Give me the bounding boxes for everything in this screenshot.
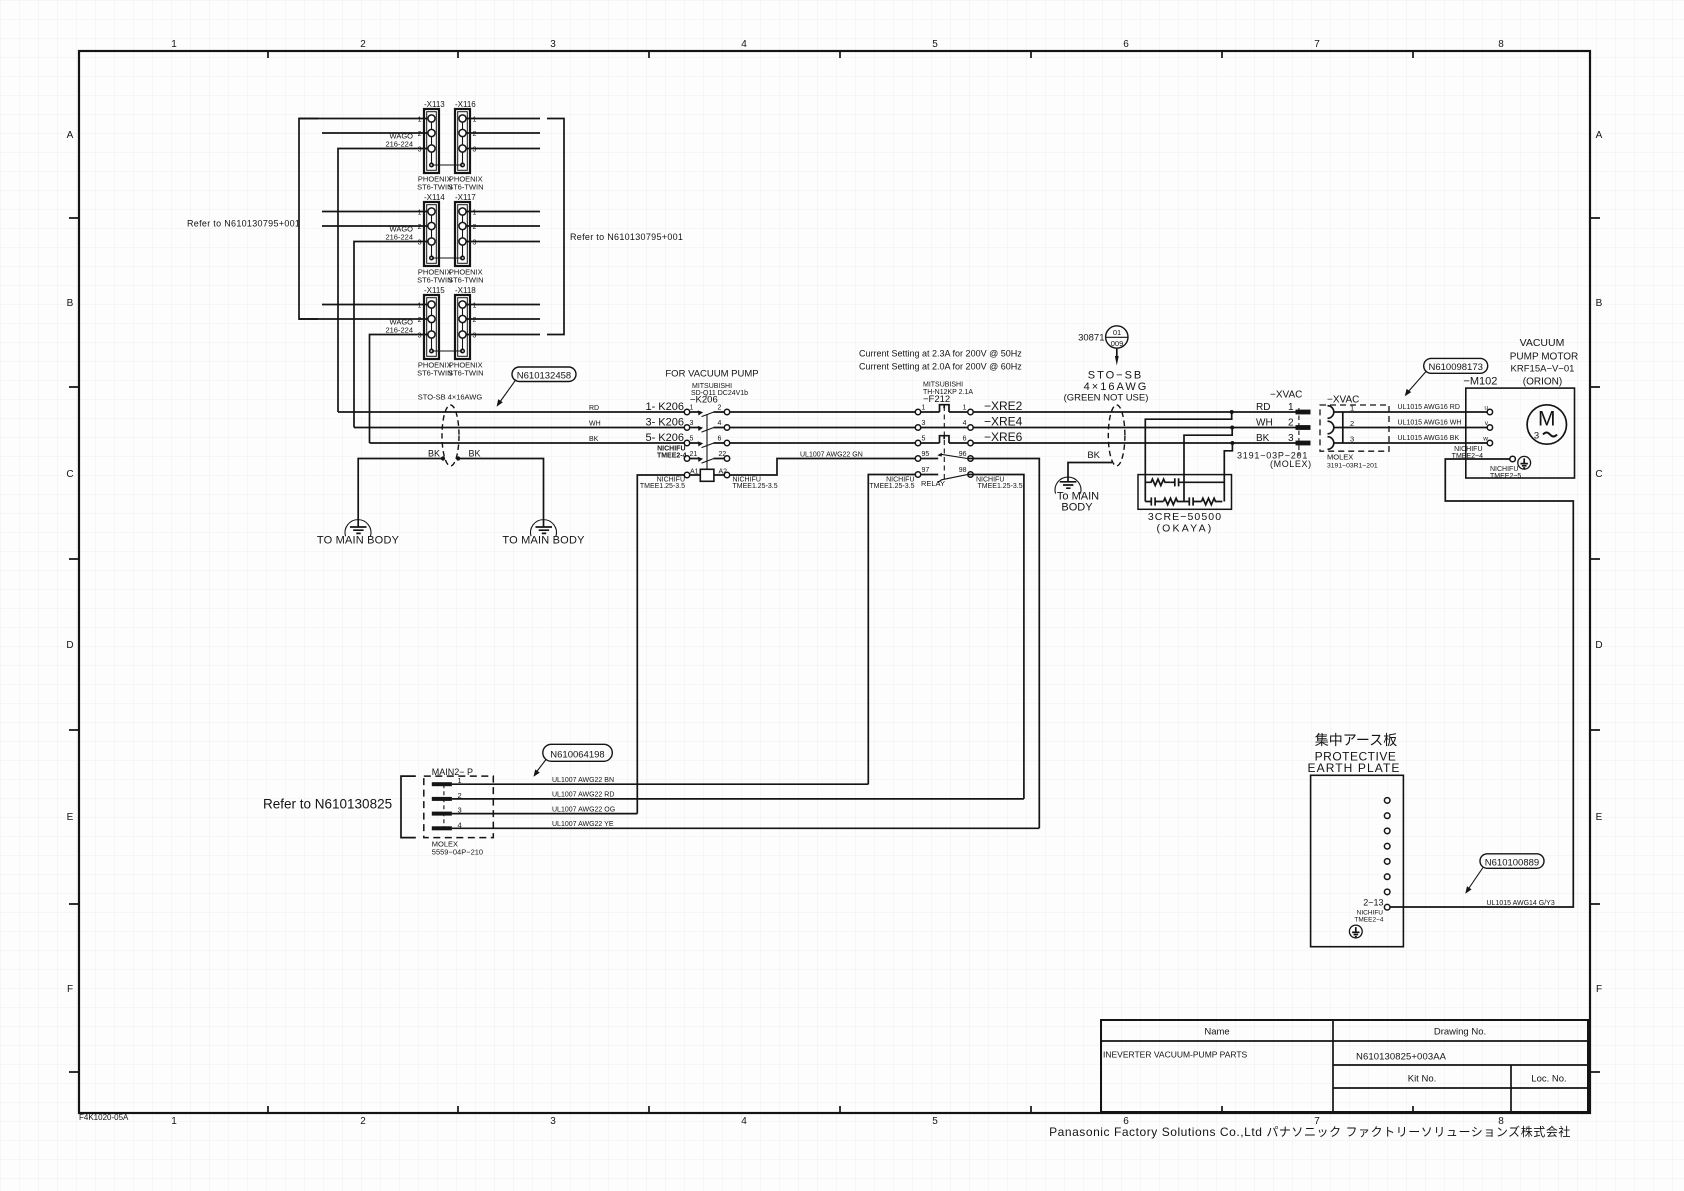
- svg-text:2: 2: [360, 1116, 366, 1127]
- svg-text:TMEE2-4: TMEE2-4: [657, 453, 687, 460]
- svg-text:MITSUBISHI: MITSUBISHI: [923, 382, 963, 389]
- svg-text:(GREEN NOT USE): (GREEN NOT USE): [1064, 393, 1149, 404]
- wire X113.3 to RD: [338, 149, 428, 413]
- svg-text:UL1015 AWG14 G/Y3: UL1015 AWG14 G/Y3: [1487, 900, 1555, 907]
- svg-text:2−13: 2−13: [1363, 898, 1383, 908]
- svg-text:Current Setting at 2.3A for 20: Current Setting at 2.3A for 200V @ 50Hz: [859, 349, 1022, 359]
- cable shield ellipse (right): [1108, 405, 1125, 466]
- connector -X116: [448, 100, 483, 192]
- svg-text:N610130825+003AA: N610130825+003AA: [1356, 1052, 1447, 1063]
- wire WH F212 to XVAC: [973, 427, 1295, 429]
- svg-text:(MOLEX): (MOLEX): [1270, 459, 1312, 469]
- svg-text:5: 5: [932, 39, 938, 50]
- refer note MAIN2-P: [263, 797, 392, 812]
- row ticks left: [69, 218, 79, 1072]
- svg-text:A: A: [67, 130, 74, 141]
- wire UL1015 AWG16 BK to motor: [1389, 435, 1487, 443]
- svg-text:-X115: -X115: [424, 286, 445, 295]
- svg-text:1: 1: [690, 405, 694, 412]
- wire X115-X118 link: [432, 350, 463, 352]
- svg-text:N610098173: N610098173: [1428, 362, 1482, 373]
- svg-text:STO−SB: STO−SB: [1088, 370, 1144, 382]
- svg-text:216-224: 216-224: [385, 140, 413, 149]
- wire X118.2: [466, 318, 540, 320]
- svg-text:WH: WH: [589, 421, 601, 428]
- wire 97 to MAIN2-P.1 (BN): [868, 475, 915, 785]
- svg-text:TMEE2−4: TMEE2−4: [1354, 917, 1383, 924]
- svg-text:ST6-TWIN: ST6-TWIN: [448, 183, 483, 192]
- revision mark 30871 01/009: [1078, 326, 1128, 366]
- wire BK drain to left ground: [358, 449, 443, 528]
- svg-text:1: 1: [171, 1116, 177, 1127]
- svg-text:3CRE−50500: 3CRE−50500: [1148, 511, 1222, 523]
- node -XRE2: [984, 399, 1023, 413]
- svg-text:1: 1: [473, 303, 477, 310]
- svg-text:集中アース板: 集中アース板: [1315, 732, 1397, 748]
- wire RD F212 to XVAC: [973, 411, 1295, 413]
- svg-text:97: 97: [922, 467, 930, 474]
- svg-text:Refer to N610130825: Refer to N610130825: [263, 797, 392, 812]
- svg-text:95: 95: [922, 451, 930, 458]
- svg-text:2: 2: [473, 131, 477, 138]
- svg-text:UL1007 AWG22 BN: UL1007 AWG22 BN: [552, 777, 614, 784]
- refer note left: [187, 219, 300, 229]
- thermal overload relay -F212: [869, 382, 1022, 491]
- svg-text:01: 01: [1113, 328, 1121, 337]
- svg-text:009: 009: [1111, 339, 1124, 348]
- svg-text:(OKAYA): (OKAYA): [1156, 523, 1213, 535]
- wire X118.1: [466, 304, 540, 306]
- svg-text:WH: WH: [1256, 417, 1273, 428]
- svg-text:B: B: [67, 298, 74, 309]
- svg-text:1: 1: [171, 39, 177, 50]
- svg-text:BK: BK: [589, 436, 599, 443]
- svg-text:−M102: −M102: [1463, 376, 1497, 388]
- column ticks top: [268, 51, 1413, 58]
- svg-text:3: 3: [418, 333, 422, 340]
- node -XRE4: [984, 414, 1023, 428]
- svg-text:7: 7: [1314, 39, 1320, 50]
- wire X113.1: [299, 118, 428, 120]
- svg-text:UL1015 AWG16 WH: UL1015 AWG16 WH: [1398, 420, 1462, 427]
- svg-text:5: 5: [690, 436, 694, 443]
- svg-text:5559−04P−210: 5559−04P−210: [432, 848, 483, 857]
- svg-text:5: 5: [932, 1116, 938, 1127]
- wire 98 to MAIN2-P.2 (RD): [973, 475, 1024, 799]
- wire BK drain to right ground: [458, 449, 543, 528]
- wire UL1015 AWG16 WH to motor: [1389, 420, 1487, 428]
- svg-text:2: 2: [418, 317, 422, 324]
- svg-text:−XRE6: −XRE6: [984, 430, 1023, 444]
- wire BK F212 to XVAC: [973, 442, 1295, 444]
- svg-text:ST6-TWIN: ST6-TWIN: [448, 369, 483, 378]
- protective earth plate: [1307, 732, 1403, 947]
- earth symbol (circled): [1349, 925, 1362, 938]
- svg-text:5- K206: 5- K206: [645, 432, 684, 444]
- right group bracket: [547, 119, 564, 335]
- svg-text:3: 3: [922, 420, 926, 427]
- svg-text:-X118: -X118: [455, 286, 476, 295]
- junction BK drain left: [441, 456, 445, 460]
- capacitor C bottom-right: [1184, 497, 1202, 505]
- svg-text:3: 3: [473, 147, 477, 154]
- svg-text:PUMP MOTOR: PUMP MOTOR: [1510, 352, 1579, 363]
- svg-text:4: 4: [718, 420, 722, 427]
- left group bracket: [299, 119, 318, 320]
- earth symbol (circled): [1518, 456, 1531, 469]
- svg-text:1: 1: [418, 210, 422, 217]
- wire X117.2: [466, 225, 540, 227]
- wire BK K206 to F212: [730, 442, 916, 444]
- svg-text:3: 3: [418, 240, 422, 247]
- contactor -K206: [640, 369, 778, 491]
- svg-text:FOR VACUUM PUMP: FOR VACUUM PUMP: [665, 369, 758, 380]
- svg-text:2: 2: [473, 317, 477, 324]
- svg-text:2: 2: [473, 224, 477, 231]
- svg-text:21: 21: [690, 451, 698, 458]
- wire RD phase row (cable to K206): [338, 405, 684, 412]
- svg-text:1: 1: [473, 117, 477, 124]
- wire X118.3: [466, 334, 540, 336]
- part flag N610132458: [497, 367, 576, 407]
- svg-text:1: 1: [1288, 402, 1294, 413]
- svg-text:EARTH PLATE: EARTH PLATE: [1307, 761, 1400, 775]
- svg-text:98: 98: [959, 467, 967, 474]
- svg-text:BK: BK: [1256, 433, 1270, 444]
- wire BK tap to filter: [1224, 443, 1232, 502]
- svg-text:3: 3: [550, 39, 556, 50]
- svg-text:Current Setting at 2.0A for 20: Current Setting at 2.0A for 200V @ 60Hz: [859, 362, 1022, 372]
- TITLEBLOCK: [1101, 1020, 1588, 1112]
- svg-text:−XVAC: −XVAC: [1270, 390, 1302, 401]
- svg-text:4: 4: [963, 420, 967, 427]
- svg-text:B: B: [1596, 298, 1603, 309]
- svg-text:NICHIFU: NICHIFU: [657, 446, 685, 453]
- resistor R top: [1145, 479, 1170, 485]
- svg-text:3: 3: [550, 1116, 556, 1127]
- wire UL1007 AWG22 YE (pin4): [452, 821, 1039, 828]
- svg-text:−XVAC: −XVAC: [1327, 395, 1359, 406]
- svg-text:UL1007 AWG22 RD: UL1007 AWG22 RD: [552, 792, 614, 799]
- svg-text:TMEE1.25-3.5: TMEE1.25-3.5: [733, 483, 778, 490]
- motor symbol M 3~: [1527, 405, 1566, 444]
- svg-text:TO MAIN BODY: TO MAIN BODY: [317, 535, 400, 547]
- wire A1 to MAIN2-P.3: [637, 475, 684, 814]
- wire X115.3 to BK: [370, 335, 429, 444]
- svg-text:216-224: 216-224: [385, 326, 413, 335]
- svg-text:RD: RD: [589, 405, 599, 412]
- svg-text:MOLEX: MOLEX: [1327, 453, 1353, 462]
- svg-text:BK: BK: [469, 449, 481, 459]
- svg-text:2: 2: [718, 405, 722, 412]
- svg-text:1: 1: [922, 405, 926, 412]
- capacitor C top: [1171, 478, 1225, 486]
- RIGHT: [1055, 326, 1578, 947]
- svg-text:C: C: [1595, 469, 1602, 480]
- svg-text:2: 2: [360, 39, 366, 50]
- wire UL1015 AWG16 RD to motor: [1389, 404, 1487, 412]
- svg-text:−K206: −K206: [690, 395, 718, 406]
- svg-text:4: 4: [741, 1116, 747, 1127]
- svg-text:M: M: [1538, 408, 1556, 431]
- connector -X115: [385, 286, 452, 378]
- svg-text:E: E: [67, 812, 74, 823]
- svg-text:RELAY: RELAY: [921, 479, 945, 488]
- svg-text:-X114: -X114: [424, 193, 445, 202]
- connector -X117: [448, 193, 483, 285]
- MIDDLE: [317, 349, 1296, 829]
- connector -XVAC plug 3191-03P-201: [1237, 390, 1312, 470]
- svg-text:6: 6: [718, 436, 722, 443]
- wire WH K206 to F212: [730, 427, 916, 429]
- junction RD tap: [1230, 410, 1234, 414]
- svg-text:Kit No.: Kit No.: [1408, 1074, 1437, 1085]
- svg-text:Name: Name: [1204, 1027, 1229, 1038]
- wire PE motor to earth plate: [1390, 459, 1573, 907]
- svg-text:Loc. No.: Loc. No.: [1531, 1074, 1566, 1085]
- wire RD K206 to F212: [730, 411, 916, 413]
- connector -X113: [385, 100, 452, 192]
- svg-text:4×16AWG: 4×16AWG: [1084, 381, 1149, 393]
- svg-text:-X113: -X113: [424, 100, 445, 109]
- ground To MAIN BODY (right): [1055, 477, 1099, 513]
- refer note right: [570, 232, 683, 242]
- connector MAIN2-P MOLEX 5559-04P-210: [424, 767, 494, 857]
- wire X116.3: [466, 148, 540, 150]
- row letters right: [1595, 130, 1602, 995]
- part flag N610100889: [1465, 854, 1544, 894]
- svg-text:3191−03R1−201: 3191−03R1−201: [1327, 463, 1378, 470]
- svg-text:2: 2: [418, 224, 422, 231]
- svg-text:MITSUBISHI: MITSUBISHI: [692, 383, 732, 390]
- svg-text:6: 6: [1123, 39, 1129, 50]
- wire X113-X116 link: [432, 164, 463, 166]
- svg-text:3: 3: [473, 240, 477, 247]
- wire X117.3: [466, 241, 540, 243]
- svg-text:TO MAIN BODY: TO MAIN BODY: [502, 535, 585, 547]
- connector -X114: [385, 193, 452, 285]
- node -XRE6: [984, 430, 1023, 444]
- svg-text:ST6-TWIN: ST6-TWIN: [448, 276, 483, 285]
- connector -X118: [448, 286, 483, 378]
- svg-text:N610132458: N610132458: [517, 371, 571, 382]
- ground TO MAIN BODY (left): [317, 520, 400, 547]
- svg-text:E: E: [1596, 812, 1603, 823]
- earth pin: [1510, 456, 1516, 462]
- svg-text:3: 3: [1350, 435, 1354, 444]
- svg-text:TMEE2−5: TMEE2−5: [1490, 473, 1521, 480]
- svg-text:UL1007 AWG22 OG: UL1007 AWG22 OG: [552, 806, 615, 813]
- wire label UL1015 AWG14 G/Y3: [1487, 900, 1555, 907]
- junction BK drain right: [456, 456, 460, 460]
- row ticks right: [1590, 218, 1600, 1072]
- wire X114.3 to WH: [354, 242, 428, 428]
- svg-text:1: 1: [418, 117, 422, 124]
- svg-text:C: C: [66, 469, 73, 480]
- svg-text:1: 1: [473, 210, 477, 217]
- svg-text:F4K1020-05A: F4K1020-05A: [79, 1113, 129, 1122]
- svg-text:1: 1: [418, 303, 422, 310]
- svg-text:2: 2: [1350, 419, 1354, 428]
- noise filter 3CRE-50500 (OKAYA): [1138, 475, 1232, 535]
- wire RD tap to filter: [1145, 412, 1231, 502]
- svg-text:F: F: [1596, 984, 1602, 995]
- svg-text:Panasonic Factory Solutions Co: Panasonic Factory Solutions Co.,Ltd パナソニ…: [1049, 1124, 1571, 1139]
- wire X116.1: [466, 118, 540, 120]
- mechanical link dashed: [943, 406, 945, 479]
- wire WH tap to filter: [1184, 428, 1232, 502]
- svg-text:Refer to N610130795+001: Refer to N610130795+001: [187, 219, 300, 229]
- svg-text:NICHIFU: NICHIFU: [1490, 466, 1518, 473]
- resistor R bottom-left: [1164, 498, 1185, 504]
- svg-text:Drawing No.: Drawing No.: [1434, 1027, 1486, 1038]
- group bracket MAIN2-P: [401, 776, 416, 838]
- resistor R bottom-right: [1202, 498, 1223, 504]
- svg-text:Refer to N610130795+001: Refer to N610130795+001: [570, 232, 683, 242]
- svg-text:N610100889: N610100889: [1485, 857, 1539, 868]
- wire X114.1: [322, 211, 428, 213]
- svg-text:3: 3: [473, 333, 477, 340]
- wire X116.2: [466, 132, 540, 134]
- svg-text:1: 1: [963, 405, 967, 412]
- svg-text:3: 3: [1534, 431, 1539, 442]
- wire X115.1: [322, 304, 428, 306]
- svg-text:BK: BK: [1087, 450, 1100, 461]
- column numbers top: [171, 39, 1504, 50]
- svg-text:TMEE1.25-3.5: TMEE1.25-3.5: [869, 483, 914, 490]
- svg-text:−XRE2: −XRE2: [984, 399, 1023, 413]
- wire X115.2: [299, 318, 428, 320]
- svg-text:BODY: BODY: [1061, 502, 1093, 514]
- svg-text:KRF15A−V−01: KRF15A−V−01: [1511, 364, 1575, 375]
- svg-text:-X117: -X117: [455, 193, 476, 202]
- column ticks bottom: [268, 1106, 1413, 1113]
- wire UL1007 AWG22 BN (pin1): [452, 777, 868, 784]
- svg-text:8: 8: [1498, 39, 1504, 50]
- svg-text:5: 5: [922, 436, 926, 443]
- svg-text:UL1007 AWG22 YE: UL1007 AWG22 YE: [552, 821, 614, 828]
- wire UL1007 AWG22 RD (pin2): [452, 792, 1024, 799]
- svg-text:216-224: 216-224: [385, 233, 413, 242]
- wire A2 to 95 (UL1007 AWG22 GN): [730, 452, 916, 476]
- svg-text:(ORION): (ORION): [1523, 377, 1562, 388]
- svg-text:3: 3: [418, 147, 422, 154]
- svg-text:UL1015 AWG16 BK: UL1015 AWG16 BK: [1398, 435, 1460, 442]
- svg-text:-X116: -X116: [455, 100, 476, 109]
- svg-text:6: 6: [963, 436, 967, 443]
- svg-text:3: 3: [1288, 433, 1294, 444]
- column numbers bottom: [171, 1116, 1504, 1127]
- svg-text:30871: 30871: [1078, 333, 1104, 344]
- note current setting: [859, 349, 1022, 372]
- svg-text:2: 2: [418, 131, 422, 138]
- connector -XVAC receptacle MOLEX 3191-03R1-201: [1320, 395, 1389, 470]
- svg-text:BK: BK: [428, 449, 440, 459]
- svg-text:NICHIFU: NICHIFU: [1357, 910, 1384, 917]
- svg-text:D: D: [66, 640, 73, 651]
- motor -M102 VACUUM PUMP MOTOR: [1452, 337, 1579, 480]
- wire X117.1: [466, 211, 540, 213]
- part flag N610064198: [534, 744, 613, 776]
- TOPLEFT: [187, 100, 683, 443]
- svg-text:STO-SB 4×16AWG: STO-SB 4×16AWG: [418, 393, 483, 402]
- ground TO MAIN BODY (second): [502, 520, 585, 547]
- svg-text:−F212: −F212: [923, 394, 950, 405]
- svg-text:RD: RD: [1256, 402, 1270, 413]
- wire X114-X117 link: [432, 257, 463, 259]
- wire BK drain to main body ground: [1068, 450, 1112, 482]
- svg-text:INEVERTER VACUUM-PUMP PARTS: INEVERTER VACUUM-PUMP PARTS: [1103, 1050, 1248, 1060]
- wire WH phase row (cable to K206): [354, 421, 684, 428]
- svg-text:UL1007 AWG22 GN: UL1007 AWG22 GN: [800, 452, 863, 459]
- svg-text:1- K206: 1- K206: [645, 401, 684, 413]
- svg-text:NICHIFU: NICHIFU: [1454, 446, 1482, 453]
- wire X113.2: [322, 132, 428, 134]
- wire 96 to MAIN2-P.4 (YE): [973, 459, 1039, 829]
- svg-text:−XRE4: −XRE4: [984, 414, 1023, 428]
- BOTTOM: [263, 744, 1039, 856]
- wire X114.2: [322, 225, 428, 227]
- svg-text:1: 1: [1350, 404, 1354, 413]
- svg-text:3- K206: 3- K206: [645, 417, 684, 429]
- wire BK phase row (cable to K206): [370, 436, 685, 443]
- svg-text:VACUUM: VACUUM: [1520, 337, 1565, 349]
- svg-text:TMEE1.25-3.5: TMEE1.25-3.5: [640, 483, 685, 490]
- svg-text:3: 3: [690, 420, 694, 427]
- row letters left: [66, 130, 73, 995]
- svg-text:2: 2: [1288, 417, 1294, 428]
- cable label STO-SB 4x16AWG GREEN NOT USE: [1064, 370, 1149, 404]
- wire UL1007 AWG22 OG (pin3): [452, 806, 637, 813]
- svg-text:D: D: [1595, 640, 1602, 651]
- cable shield STO-SB 4x16AWG (left): [418, 393, 483, 467]
- svg-text:4: 4: [741, 39, 747, 50]
- svg-text:F: F: [67, 984, 73, 995]
- svg-text:A: A: [1596, 130, 1603, 141]
- part flag N610098173: [1405, 358, 1488, 396]
- mechanical link: [706, 415, 708, 470]
- junction WH tap: [1230, 426, 1234, 430]
- svg-text:TMEE1.25-3.5: TMEE1.25-3.5: [978, 483, 1023, 490]
- svg-text:N610064198: N610064198: [550, 749, 604, 760]
- capacitor C bottom-left: [1145, 497, 1163, 505]
- svg-text:UL1015 AWG16 RD: UL1015 AWG16 RD: [1398, 404, 1460, 411]
- junction BK tap: [1230, 441, 1234, 445]
